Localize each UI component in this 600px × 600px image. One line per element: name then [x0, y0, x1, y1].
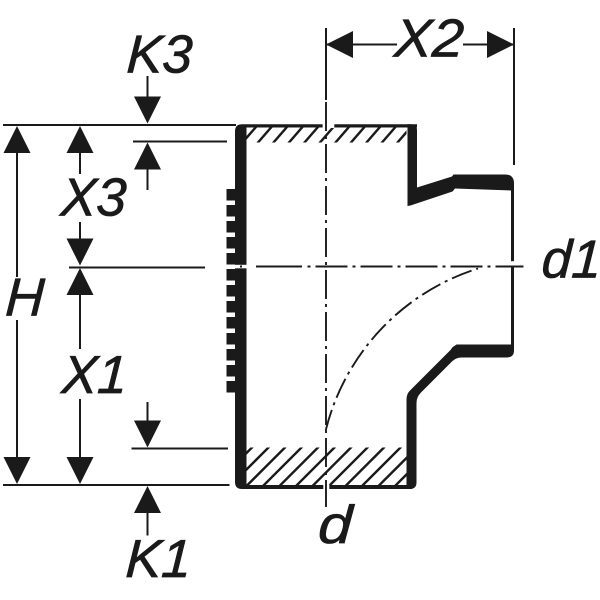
svg-text:X1: X1	[58, 346, 129, 405]
svg-text:K3: K3	[125, 26, 194, 85]
svg-text:d1: d1	[540, 231, 600, 290]
svg-text:X2: X2	[391, 8, 466, 68]
svg-text:X3: X3	[57, 169, 128, 228]
svg-text:H: H	[4, 269, 46, 328]
svg-text:d: d	[317, 495, 356, 555]
svg-text:K1: K1	[124, 530, 193, 589]
